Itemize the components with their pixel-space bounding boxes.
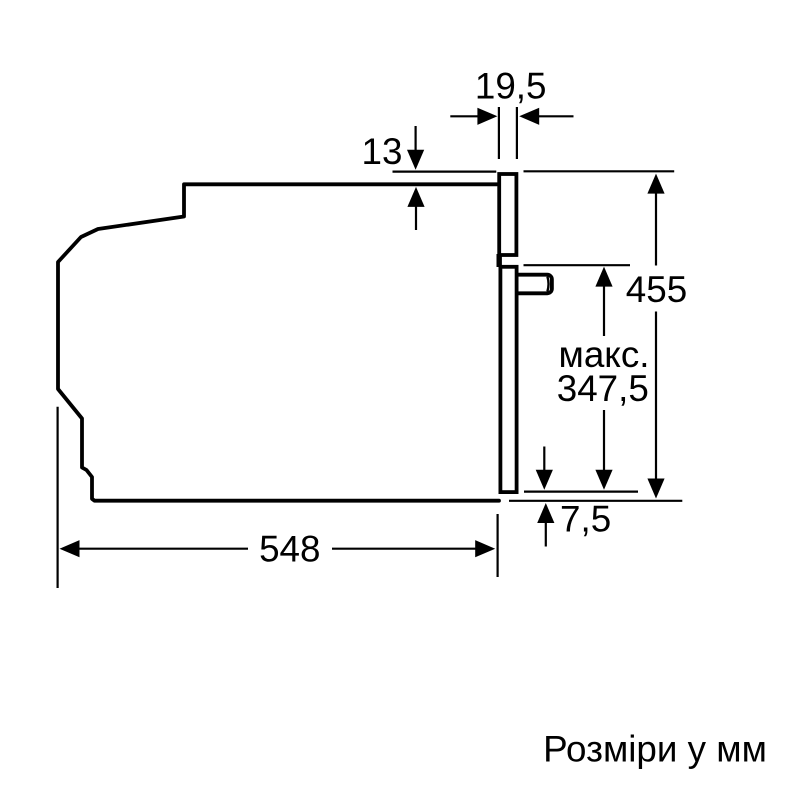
caption Розміри у мм — [543, 729, 767, 770]
gap back line — [497, 254, 502, 267]
label 19,5 — [475, 66, 547, 107]
dimension 13 up arrow — [407, 187, 424, 230]
svg-text:Розміри у мм: Розміри у мм — [543, 729, 767, 770]
extension line 19,5 right — [516, 107, 518, 159]
label макс. — [559, 334, 650, 375]
dimension 455 — [647, 174, 664, 499]
dimension 19,5 right arrow — [519, 108, 573, 125]
control panel front — [499, 174, 516, 255]
extension line door-top right — [524, 170, 675, 172]
dimension 7,5 up arrow — [537, 503, 554, 547]
label 455 — [626, 269, 687, 310]
dimension 13 down arrow — [407, 126, 424, 170]
svg-text:347,5: 347,5 — [557, 368, 649, 409]
svg-text:19,5: 19,5 — [475, 66, 547, 107]
extension line 548 right — [497, 514, 499, 577]
svg-text:7,5: 7,5 — [560, 499, 611, 540]
extension line door-lower-top — [524, 264, 631, 266]
door handle — [517, 275, 552, 294]
extension line door-top left — [393, 171, 497, 173]
dimension 7,5 down arrow — [536, 447, 553, 490]
svg-text:548: 548 — [259, 529, 320, 570]
door front — [500, 267, 516, 492]
label 13 — [362, 131, 403, 172]
dimension 548 — [60, 540, 496, 557]
extension line 548 left — [56, 407, 58, 588]
svg-text:455: 455 — [626, 269, 687, 310]
label 347,5 — [557, 368, 649, 409]
label 548 — [259, 529, 320, 570]
dimension 19,5 left arrow — [450, 108, 497, 125]
svg-text:13: 13 — [362, 131, 403, 172]
extension line body-bottom — [509, 500, 682, 502]
dimension 347,5 — [595, 267, 612, 490]
extension line door-bottom — [524, 491, 638, 493]
label 7,5 — [560, 499, 611, 540]
extension line 19,5 left — [498, 107, 500, 159]
handle cap inner arc — [547, 277, 548, 292]
oven body outline — [58, 184, 499, 500]
